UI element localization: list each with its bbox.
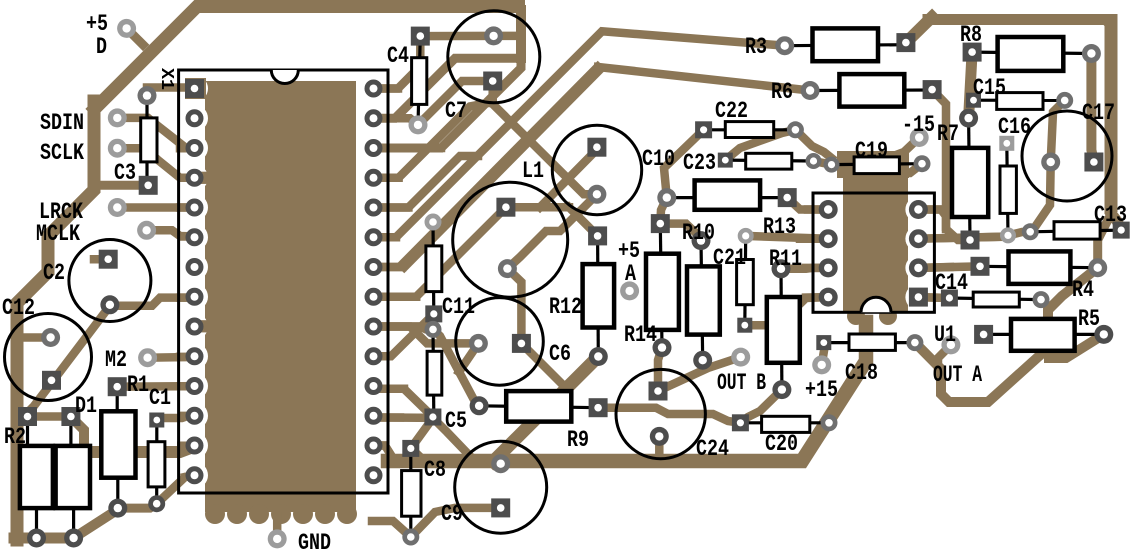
label C2 [43,260,65,286]
pad C22 left [695,121,712,138]
pad D1 bottom [64,529,83,548]
resistor R10 body [687,266,720,334]
wire fan row7R to R6 [374,65,811,269]
wire U1 pin8 to R7 bottom [918,210,946,230]
label C19 [855,138,888,164]
label GND [298,530,331,553]
wire C7 square chain to C10 ring [493,81,597,194]
lead C8 [409,448,412,537]
wire big horizontal gnd band [388,322,866,461]
label D1 [75,393,97,419]
label C4 [387,43,409,69]
label C8 [424,457,446,483]
label R8 [960,22,982,48]
pad U1 mount [941,335,960,354]
lead R12 [596,236,600,357]
label R6 [771,79,793,105]
pad C6 minus [512,334,531,353]
label C13 [1094,202,1127,228]
pad C1 top [149,413,164,428]
wire SDIN trace [117,118,194,148]
pad C3 top [138,86,157,105]
resistor R12 body [583,264,615,327]
pad C18 right [906,334,923,351]
pad L1 b [498,259,517,278]
wire C10 ring to L1 ring [507,194,597,268]
lead C18 [824,341,915,344]
wire R5 right to band [1049,334,1104,358]
pad C14 right [1033,291,1050,308]
wire R14 top to R10 top [660,224,701,241]
label C16 [998,114,1031,140]
svg-text:C19: C19 [855,138,888,164]
capacitor C5 body [427,351,442,395]
wire fan row9R to C6 ring [374,327,479,344]
resistor R6 body [839,74,904,107]
lead R2 [28,417,37,539]
wire output band A [915,268,1098,402]
pad R6 left [801,81,820,100]
wire pour stub row4L again [192,172,208,184]
lead C3 [145,96,148,186]
svg-text:C20: C20 [765,431,798,457]
lead R9 [479,406,598,408]
wire band to R4 right [1098,216,1110,268]
svg-text:X1: X1 [156,68,176,90]
label R13 [763,214,796,240]
capacitor C17 circle [1022,111,1112,201]
wire top-right band [928,14,1121,230]
label R12 [549,294,582,320]
svg-text:GND: GND [298,530,331,553]
svg-text:U1: U1 [934,322,956,348]
label C12 [2,295,35,321]
label C15 [973,75,1006,101]
pad C7 plus [484,26,503,45]
pad C4 bottom [409,115,428,134]
wire C14 right stub [1041,300,1048,306]
pad R9 right [589,398,608,417]
label C21 [713,245,746,271]
lead R7 [969,118,970,240]
pad C21 top [738,228,754,244]
label C6 [549,341,571,367]
capacitor C4 body [412,58,427,105]
IC U2 outline [179,70,388,493]
lead R8 [972,52,1091,53]
wire fan row4R to C7 square [374,103,493,178]
lead R4 [980,266,1098,267]
label R1 [127,372,149,398]
capacitor C9 circle [455,441,547,533]
svg-text:C23: C23 [683,150,716,176]
wire pin1R to C4 top [374,40,421,89]
wire C4 top to C7 ring [420,32,493,41]
wire R13 right to U1 pin1 [787,198,828,210]
svg-text:C8: C8 [424,457,446,483]
pad C13 right [1113,222,1130,239]
pad C21 bottom [737,318,752,333]
capacitor C22 body [725,122,773,138]
lead C11 [431,222,435,314]
pad C20 right [821,414,838,431]
lead C13 [1030,230,1121,232]
capacitor C24 circle [616,369,705,458]
wire C4 bottom branch [418,81,484,125]
svg-text:R11: R11 [769,246,802,272]
capacitor C16 body [1000,166,1016,213]
wire band to pin13L [84,447,195,453]
pad C19 left [824,157,840,173]
pad C5 top [425,321,442,338]
pad C15 left [966,93,981,108]
svg-text:C22: C22 [715,98,748,124]
svg-text:C5: C5 [445,408,467,434]
lead D1 [71,417,74,539]
pad R13 left [657,188,676,207]
pad C19 right [914,155,931,172]
svg-text:C11: C11 [442,294,475,320]
lead R3 [785,45,906,46]
wire left vertical band [17,101,94,540]
pad keepouts [181,75,931,489]
svg-text:C24: C24 [696,436,729,462]
wire gnd diag to R1 pad [74,508,118,538]
pad C1 bottom [148,495,165,512]
pad C18 left [816,335,831,350]
wire M2 trace [148,353,195,362]
wire C6 square to wide diag [521,343,566,388]
svg-text:D: D [96,34,107,60]
label R4 [1072,277,1094,303]
wire fan row5R join [374,156,479,208]
svg-text:-15: -15 [902,112,935,138]
wire C3 top to pin1 [147,88,190,96]
pad C2 plus [99,250,118,269]
op-amp U1 pads [819,200,928,307]
wire pour stub row4L [190,172,208,184]
lead R11 [779,269,783,390]
capacitor C12 circle [5,314,92,401]
label SDIN [40,110,84,136]
lead C5 [431,329,435,415]
lead C16 [1007,143,1008,235]
wire R6 right to R7 net [932,90,966,240]
svg-text:R1: R1 [127,372,149,398]
wire power row2R flat [374,58,520,118]
copper pour under op-amp U1 [837,151,909,325]
wire row13R stub [374,446,392,456]
svg-text:C16: C16 [998,114,1031,140]
pad R10 bottom [693,351,712,370]
wire LRCK trace [117,203,194,212]
pad C5 bottom [424,409,441,426]
pad R12 bottom [589,347,608,366]
wire SCLK trace [117,148,194,178]
wire power row3R to C7 junction [374,58,522,148]
pad C24 plus [649,382,668,401]
wire C4 bottom to pin2R [374,118,419,125]
resistor R9 body [506,391,571,422]
resistor R2 body [20,446,53,508]
pad SCLK [108,139,127,158]
pad R7 bottom [961,231,980,250]
lead R13 [667,196,787,199]
svg-text:MCLK: MCLK [36,221,80,247]
pad R2 bottom [27,529,46,548]
label R2 [4,424,26,450]
wire C5 chain to R9 left [433,329,479,405]
pad R10 top [692,231,711,250]
pad R9 left [470,396,489,415]
pad C8 top [402,440,419,457]
label C14 [935,270,968,296]
svg-text:OUT B: OUT B [717,370,766,396]
wire C22 left to R13 left [664,130,704,198]
label +5 D [86,11,108,37]
pad C10 minus [587,185,606,204]
capacitor C11 body [426,246,442,292]
lead R14 [660,224,662,348]
lead C21 [743,236,747,325]
capacitor C14 body [973,292,1019,307]
wire C8 bottom to pour [372,521,411,537]
pad C12 minus [42,371,61,390]
capacitor C6 circle [456,298,544,386]
svg-text:C10: C10 [642,146,675,172]
pad R7 top [959,109,978,128]
pad L1 a [496,198,515,217]
wire MCLK trace [147,230,195,236]
lead C20 [740,421,829,424]
label C17 [1082,100,1115,126]
pad R14 bottom [653,338,672,357]
wire gnd pad stub [273,516,282,539]
label C22 [715,98,748,124]
capacitor C1 body [148,442,165,487]
svg-text:C1: C1 [149,385,171,411]
wire -15 pad to pour [896,138,919,156]
pad R8 left [963,43,982,62]
pad R14 top [651,214,670,233]
pad C12 plus [41,328,60,347]
pad C8 bottom [402,529,419,546]
pad R1 bottom [108,499,127,518]
pad R8 right [1082,44,1101,63]
wire U1 pin6 to R4 left [918,266,980,268]
wire R11 bottom to C20 [740,390,782,423]
lead R1 [116,387,120,508]
label OUT A [933,362,982,388]
wire C5 square branch [433,418,470,456]
pad R2 top [18,407,37,426]
capacitor C8 body [402,471,421,517]
pad +5D [117,19,136,38]
label D [96,34,107,60]
pad C9 minus [491,498,510,517]
label C1 [149,385,171,411]
wire C15 right to C17 ring to C13 left [1030,100,1065,231]
capacitor C3 body [141,118,157,162]
wire U1 pin7 to C16 C13 [918,232,1030,239]
lead R10 [701,241,703,361]
capacitor C21 body [737,260,754,305]
wire C23 left to C22 right [725,130,795,160]
label +15 [805,377,838,403]
lead C14 [949,298,1041,300]
wire C8 top to band [411,448,423,460]
wire row12R to C5 square [374,413,433,422]
label MCLK [36,221,80,247]
svg-text:R13: R13 [763,214,796,240]
pad C11 top [425,214,442,231]
svg-text:SDIN: SDIN [40,110,84,136]
diode D1 body [56,446,90,508]
label C23 [683,150,716,176]
svg-text:C18: C18 [845,360,878,386]
wire row9R to C5 top [374,327,434,330]
label C20 [765,431,798,457]
wire C7 junction vertical [516,10,526,58]
svg-text:L1: L1 [522,158,544,184]
label +5 A [618,238,640,264]
label R14 [624,322,657,348]
label OUT B [717,370,766,396]
pad C3 bottom [139,176,158,195]
pad C24 minus [650,427,669,446]
pad C6 plus [469,334,488,353]
wire top band +5D net [127,28,143,44]
svg-text:C14: C14 [935,270,968,296]
wire C3 gnd stub [94,181,148,190]
wire C21 top to U1 pin2 [746,236,829,239]
svg-text:R7: R7 [937,121,959,147]
wire R8 right to C17 square [1091,54,1094,163]
label R10 [682,220,715,246]
pad C23 left [718,153,733,168]
pad R11 bottom [772,380,791,399]
lead R5 [984,333,1104,336]
label C3 [114,160,136,186]
label C7 [445,98,467,124]
wire C21 bottom to U1 pin4 [745,297,828,325]
svg-text:C4: C4 [387,43,409,69]
resistor R5 body [1011,319,1075,351]
wire C1 top trace [157,416,195,418]
pad R3 right [896,33,915,52]
pad -15 [910,128,929,147]
pad C20 left [732,414,749,431]
label SCLK [40,140,84,166]
pad +15 [812,355,831,374]
label C11 [442,294,475,320]
svg-text:C2: C2 [43,260,65,286]
svg-text:R4: R4 [1072,277,1094,303]
wire C2/C12 crossing diagonal [20,298,195,420]
wire pour stub row9L [190,320,208,332]
svg-text:C17: C17 [1082,100,1115,126]
pad C9 plus [491,454,510,473]
label C18 [845,360,878,386]
wire pin1 pour stub [185,78,206,99]
wire C24 to OUT B [658,357,741,391]
wire C23 right jog [814,161,849,165]
svg-text:C12: C12 [2,295,35,321]
label C9 [441,501,463,527]
lead C19 [832,162,923,166]
wire R3 right to top band [906,17,932,43]
svg-text:C6: C6 [549,341,571,367]
svg-text:R3: R3 [745,34,767,60]
pad C16 top [999,136,1014,151]
pad R13 right [778,188,797,207]
svg-text:M2: M2 [105,347,127,373]
wire U1 pin5 to C14 left [918,293,949,302]
label 1X vertical [156,68,176,90]
resistor R1 body [101,411,135,477]
wire C7 ring stub [494,32,521,41]
svg-text:R10: R10 [682,220,715,246]
pad R5 left [974,325,993,344]
wire R1pad to C1pad [118,504,157,508]
pad R4 right [1088,258,1107,277]
wire L1 ring to C6 square [507,269,521,344]
label A [625,261,636,287]
svg-text:R14: R14 [624,322,657,348]
svg-text:D1: D1 [75,393,97,419]
wire top-left diagonal band [90,7,525,114]
capacitor C2 circle [69,240,151,322]
wire trace restubs [180,89,1000,478]
wire bottom-left gnd run [14,533,74,544]
label R5 [1078,306,1100,332]
pad +5A [620,281,639,300]
label R7 [937,121,959,147]
wire C5 square to C8 top [411,418,433,448]
resistor R14 body [646,254,679,330]
resistor R7 body [952,148,988,217]
resistor R13 body [695,180,761,209]
pad C22 right [787,121,804,138]
wire fan row6R to R3 [374,31,785,237]
pad R3 left [775,36,794,55]
svg-text:R12: R12 [549,294,582,320]
svg-text:SCLK: SCLK [40,140,84,166]
wire R9 right to C20 left [598,408,740,423]
wire D1 to band [72,418,84,452]
wire branch to C10 square [540,147,597,207]
svg-text:R9: R9 [567,427,589,453]
svg-text:R5: R5 [1078,306,1100,332]
label -15 [902,112,935,138]
pad C13 left [1022,223,1039,240]
pad C4 top [411,27,430,46]
capacitor C20 body [762,416,810,432]
wire OUT A stub [938,345,951,371]
wire R1 top trace [117,382,194,391]
svg-text:OUT A: OUT A [933,362,982,388]
wire C22 right jog [795,130,831,158]
wire C12 top stub [16,333,51,342]
pad R6 right [923,80,942,99]
pad R5 right [1094,325,1113,344]
label L1 [522,158,544,184]
wire pour stub row9L again [192,320,208,332]
pad C2 minus [100,295,119,314]
wire C24 ring to band [655,436,664,456]
IC U2 pads [185,79,383,484]
lead C22 [704,128,796,131]
